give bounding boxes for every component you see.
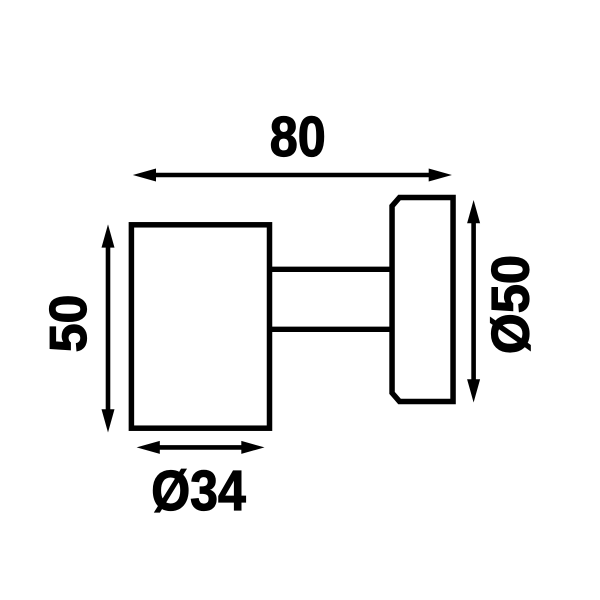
arrowhead 80 right bbox=[429, 169, 452, 182]
svg-text:Ø34: Ø34 bbox=[151, 459, 246, 523]
lamp head rectangle bbox=[131, 225, 269, 428]
svg-text:80: 80 bbox=[270, 105, 326, 169]
arrowhead D34 left bbox=[137, 441, 160, 454]
dimension line D34 bottom bbox=[152, 445, 249, 450]
svg-text:Ø50: Ø50 bbox=[482, 255, 541, 354]
wire stem bottom line bbox=[267, 327, 394, 332]
arrowhead 80 left bbox=[133, 169, 156, 182]
dimension line D50 right bbox=[471, 218, 476, 386]
arrowhead D34 right bbox=[241, 441, 264, 454]
arrowhead 50 top bbox=[102, 224, 115, 247]
dimension line 50 left bbox=[106, 242, 111, 416]
arrowhead D50 bottom bbox=[467, 379, 480, 402]
wire stem top line bbox=[267, 267, 394, 272]
arrowhead D50 top bbox=[467, 200, 480, 223]
svg-text:50: 50 bbox=[40, 295, 98, 353]
arrowhead 50 bottom bbox=[102, 409, 115, 432]
dimension line 80 bbox=[150, 173, 435, 178]
mounting plate bbox=[392, 198, 453, 402]
